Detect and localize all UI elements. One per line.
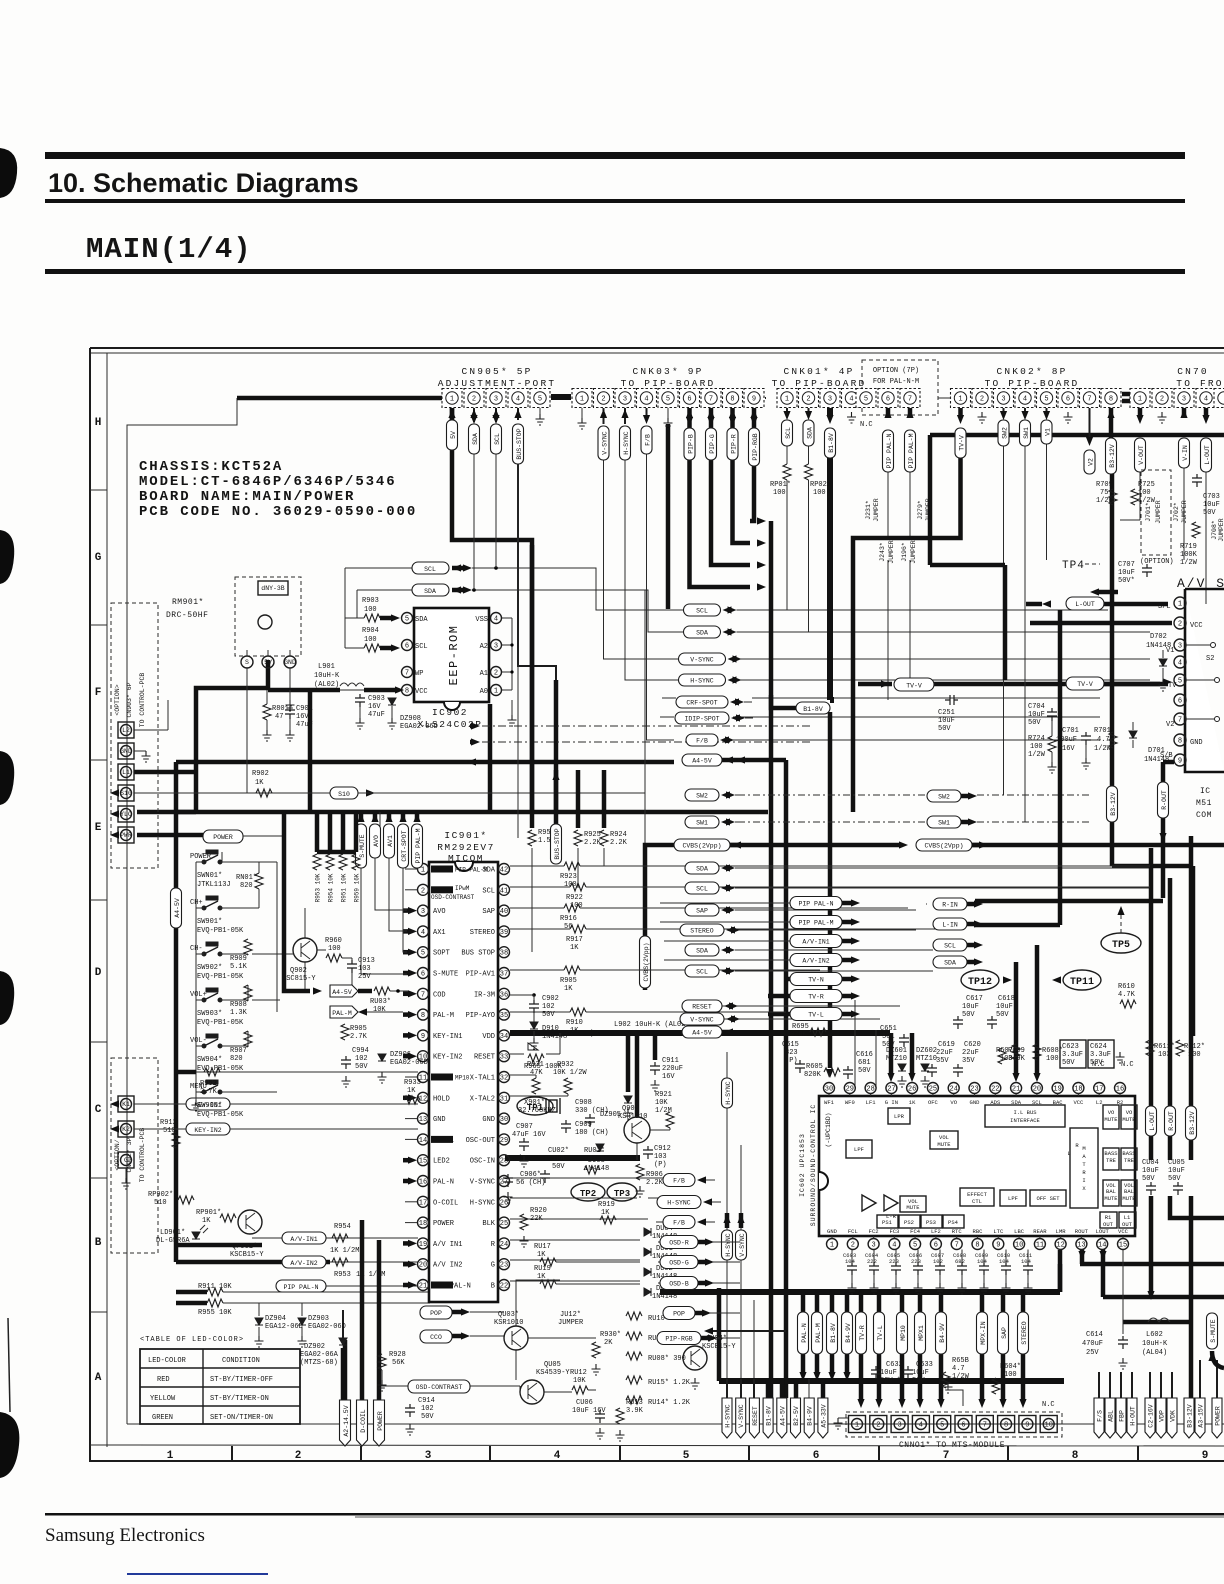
- svg-text:dNY-3B: dNY-3B: [261, 585, 285, 592]
- net tag SDA: [933, 956, 967, 968]
- svg-text:L1: L1: [1124, 1214, 1131, 1221]
- svg-text:R2: R2: [1117, 1099, 1124, 1106]
- svg-text:FOR PAL-N-M: FOR PAL-N-M: [873, 378, 919, 386]
- svg-text:38: 38: [500, 950, 508, 958]
- net tag TV-V: [955, 428, 966, 458]
- svg-text:37: 37: [500, 971, 508, 979]
- net tag L-IN: [933, 918, 967, 930]
- svg-text:EFFECT: EFFECT: [967, 1191, 988, 1198]
- transistor QU03: [504, 1326, 528, 1350]
- svg-text:17: 17: [1095, 1086, 1103, 1094]
- net tag PIP-RGB: [657, 1332, 701, 1345]
- svg-text:1/2W: 1/2W: [1094, 745, 1112, 753]
- wire VCC row pin2: [1030, 621, 1172, 626]
- svg-text:GREEN: GREEN: [152, 1414, 173, 1422]
- svg-text:BAL: BAL: [1106, 1188, 1116, 1195]
- svg-text:GND: GND: [970, 1099, 981, 1106]
- svg-text:SAP: SAP: [482, 908, 495, 916]
- svg-text:2: 2: [1160, 396, 1164, 404]
- option connector box: [862, 360, 938, 415]
- svg-text:10K: 10K: [573, 1377, 586, 1385]
- svg-text:RED: RED: [157, 1376, 170, 1384]
- svg-text:VSS: VSS: [475, 616, 488, 624]
- switch bank labels: [190, 853, 244, 1119]
- svg-text:JU12*: JU12*: [560, 1311, 581, 1319]
- svg-text:19: 19: [419, 1241, 427, 1249]
- svg-text:RP901*: RP901*: [196, 1209, 221, 1217]
- svg-text:5: 5: [1178, 678, 1182, 686]
- svg-text:C911: C911: [662, 1057, 679, 1065]
- net tag CRF-SPOT: [676, 696, 728, 708]
- switch SW901: [202, 896, 222, 910]
- svg-text:RU17: RU17: [534, 1243, 551, 1251]
- binder hole 2: [0, 530, 14, 584]
- svg-text:2: 2: [295, 1450, 302, 1462]
- svg-text:EGA02-06D: EGA02-06D: [390, 1059, 428, 1067]
- svg-text:7: 7: [1087, 396, 1091, 404]
- svg-text:10uF: 10uF: [962, 1003, 979, 1011]
- net tag A/V-IN1: [790, 935, 842, 948]
- wire bottom-left banners: [345, 1220, 379, 1400]
- resistor R925: [576, 770, 581, 828]
- svg-text:C615: C615: [782, 1041, 799, 1049]
- diode D903: [596, 1144, 604, 1151]
- svg-text:681: 681: [858, 1059, 871, 1067]
- svg-text:2.7K: 2.7K: [200, 1088, 218, 1096]
- svg-text:C994: C994: [352, 1047, 369, 1055]
- svg-text:CVBS(2Vpp): CVBS(2Vpp): [682, 843, 721, 850]
- svg-text:POWER: POWER: [213, 834, 233, 841]
- net tag SDA: [469, 424, 480, 454]
- binder hole 5: [0, 1412, 19, 1478]
- test point TP3: [607, 1183, 637, 1201]
- svg-text:100: 100: [564, 881, 577, 889]
- svg-text:A1: A1: [480, 670, 488, 678]
- svg-text:7: 7: [955, 1242, 959, 1250]
- switch SWN01: [202, 850, 222, 864]
- svg-text:TV-V: TV-V: [906, 683, 922, 690]
- svg-text:CRT-SPOT: CRT-SPOT: [401, 830, 408, 861]
- net tag SCL: [685, 882, 719, 894]
- svg-text:50V: 50V: [355, 1063, 368, 1071]
- svg-text:V2: V2: [1087, 458, 1094, 466]
- svg-text:3: 3: [494, 643, 498, 651]
- net tag R-IN: [933, 898, 967, 910]
- svg-text:MTZ10: MTZ10: [886, 1055, 907, 1063]
- svg-text:REAR: REAR: [1033, 1228, 1047, 1235]
- svg-text:KSCB15-Y: KSCB15-Y: [230, 1251, 264, 1259]
- svg-text:100uF: 100uF: [1056, 736, 1077, 744]
- svg-text:A4-5V: A4-5V: [174, 898, 181, 918]
- svg-text:O-COIL: O-COIL: [433, 1199, 458, 1207]
- wire QU03 net: [470, 1280, 596, 1380]
- svg-text:10uF: 10uF: [880, 1369, 897, 1377]
- svg-text:V-SYNC: V-SYNC: [690, 1017, 714, 1024]
- svg-text:EGA12-06D: EGA12-06D: [265, 1323, 303, 1331]
- svg-text:50V *: 50V *: [880, 1377, 901, 1385]
- CN903 pins: [118, 722, 134, 843]
- svg-text:Q902: Q902: [290, 967, 307, 975]
- svg-text:4.7K: 4.7K: [1118, 991, 1136, 999]
- svg-text:CU05: CU05: [1168, 1159, 1185, 1167]
- svg-text:TV-R: TV-R: [808, 994, 824, 1001]
- svg-text:SCL: SCL: [482, 887, 495, 895]
- svg-text:VDK: VDK: [1170, 1410, 1177, 1422]
- svg-text:R724: R724: [1028, 735, 1045, 743]
- diode/resistor R965: [510, 1053, 524, 1055]
- svg-text:682: 682: [955, 1258, 965, 1265]
- svg-text:PIP-AYO: PIP-AYO: [466, 1012, 495, 1020]
- svg-text:AV1: AV1: [387, 835, 394, 847]
- svg-text:S10: S10: [338, 791, 350, 798]
- svg-text:F/B: F/B: [696, 738, 708, 745]
- svg-text:PS3: PS3: [926, 1219, 936, 1226]
- svg-text:41: 41: [500, 887, 508, 895]
- svg-text:B1-8V: B1-8V: [828, 433, 835, 453]
- svg-text:820: 820: [240, 882, 253, 890]
- svg-text:MUTE: MUTE: [1122, 1116, 1136, 1123]
- header under rule: [45, 199, 1185, 203]
- svg-text:7: 7: [1178, 717, 1182, 725]
- wire TV rows: [768, 979, 790, 1014]
- svg-text:1K: 1K: [570, 944, 579, 952]
- svg-text:IPwM: IPwM: [455, 885, 470, 892]
- svg-text:39: 39: [500, 929, 508, 937]
- svg-text:PIP-AV1: PIP-AV1: [466, 971, 495, 979]
- binder hole 1: [0, 148, 17, 198]
- svg-text:3.3uF: 3.3uF: [1090, 1051, 1111, 1059]
- svg-text:H-SYNC: H-SYNC: [725, 1404, 732, 1428]
- svg-text:L-OUT: L-OUT: [1149, 1111, 1156, 1131]
- net tag S10: [330, 787, 358, 799]
- svg-text:EGA02-06D: EGA02-06D: [400, 723, 438, 731]
- svg-text:2: 2: [980, 396, 984, 404]
- CN905 pin stubs: [448, 408, 544, 425]
- svg-text:10uF: 10uF: [996, 1003, 1013, 1011]
- svg-text:OFC: OFC: [928, 1099, 939, 1106]
- svg-text:J231*: J231*: [865, 500, 872, 520]
- svg-text:R605: R605: [806, 1063, 823, 1071]
- svg-text:SW2: SW2: [1001, 427, 1008, 439]
- svg-text:SW901*: SW901*: [197, 918, 222, 926]
- svg-text:S-MUTE: S-MUTE: [359, 834, 366, 858]
- svg-text:VCC: VCC: [1073, 1099, 1084, 1106]
- svg-text:C633: C633: [916, 1361, 933, 1369]
- svg-text:C624: C624: [1090, 1043, 1107, 1051]
- svg-text:RESET: RESET: [692, 1004, 712, 1011]
- svg-text:QU03*: QU03*: [498, 1311, 519, 1319]
- A/V SW pins: [1174, 597, 1186, 766]
- svg-text:SDA: SDA: [696, 866, 708, 873]
- connector CN905 label: [438, 366, 557, 389]
- svg-text:50V: 50V: [882, 1041, 895, 1049]
- svg-text:2.2K: 2.2K: [646, 1179, 664, 1187]
- svg-text:100: 100: [364, 636, 377, 644]
- svg-text:R933: R933: [404, 1079, 421, 1087]
- diode DZ904: [255, 1318, 263, 1325]
- net tag SW2: [927, 790, 961, 802]
- svg-text:M51: M51: [1196, 799, 1212, 808]
- connector CN70x label: [1176, 366, 1223, 389]
- svg-text:RM292EV7: RM292EV7: [437, 842, 495, 853]
- svg-text:TRE: TRE: [1124, 1157, 1135, 1164]
- svg-text:C909: C909: [575, 1121, 592, 1129]
- wire Q901 collector: [635, 1033, 640, 1117]
- resistor R924: [602, 770, 607, 828]
- net tag PIP-R: [727, 428, 738, 460]
- svg-text:J196*: J196*: [901, 542, 908, 562]
- svg-text:100: 100: [1046, 1055, 1059, 1063]
- net tag SDA: [685, 944, 719, 956]
- svg-text:(MTZS-68): (MTZS-68): [300, 1359, 338, 1367]
- connector CNK03 label: [621, 366, 716, 389]
- svg-text:C912: C912: [654, 1145, 671, 1153]
- svg-text:D: D: [95, 967, 102, 979]
- svg-text:180 (CH): 180 (CH): [575, 1129, 609, 1137]
- svg-text:28: 28: [866, 1086, 874, 1094]
- svg-text:I.L BUS: I.L BUS: [1013, 1109, 1037, 1116]
- svg-text:510: 510: [154, 1199, 167, 1207]
- svg-text:BUS STOP: BUS STOP: [461, 950, 495, 958]
- VCC thick wire: [268, 688, 398, 693]
- svg-text:G IN: G IN: [885, 1099, 898, 1106]
- svg-text:2: 2: [494, 670, 498, 678]
- svg-text:A2-14.5V: A2-14.5V: [343, 1405, 350, 1436]
- svg-text:SW1: SW1: [938, 820, 950, 827]
- svg-text:OFF SET: OFF SET: [1036, 1195, 1060, 1202]
- svg-text:R955 10K: R955 10K: [198, 1309, 232, 1317]
- svg-text:KS4539-Y: KS4539-Y: [536, 1369, 570, 1377]
- wire CRF-SPOT row: [660, 698, 1100, 740]
- svg-text:SW1: SW1: [1023, 427, 1030, 439]
- svg-text:EVQ-PB1-05K: EVQ-PB1-05K: [197, 1019, 244, 1027]
- svg-text:QU05: QU05: [544, 1361, 561, 1369]
- svg-text:TO CONTROL-PCB: TO CONTROL-PCB: [139, 1128, 146, 1183]
- svg-text:ABL: ABL: [1108, 1410, 1115, 1422]
- svg-text:WP: WP: [415, 670, 423, 678]
- svg-text:ST-BY/TIMER-ON: ST-BY/TIMER-ON: [210, 1395, 269, 1403]
- net tag SCL: [491, 424, 502, 454]
- svg-text:STEREO: STEREO: [690, 928, 714, 935]
- net tag SDA: [803, 420, 814, 446]
- svg-text:LED-COLOR: LED-COLOR: [148, 1357, 187, 1365]
- svg-text:R924: R924: [610, 831, 627, 839]
- svg-text:1K 1/2M: 1K 1/2M: [330, 1247, 359, 1255]
- svg-text:104: 104: [552, 1155, 565, 1163]
- svg-text:18: 18: [1074, 1086, 1082, 1094]
- svg-text:C251: C251: [938, 709, 955, 717]
- net tag F/B: [641, 426, 652, 454]
- svg-text:A/V IN2: A/V IN2: [433, 1262, 462, 1270]
- net tag POWER: [203, 830, 243, 843]
- svg-text:EVQ-PB1-05K: EVQ-PB1-05K: [197, 973, 244, 981]
- svg-text:20: 20: [419, 1262, 427, 1270]
- resistor R905: [510, 969, 564, 971]
- subtitle under rule: [45, 269, 1185, 274]
- svg-text:3: 3: [494, 396, 498, 404]
- column number row: [167, 1450, 1209, 1462]
- svg-text:L-OUT: L-OUT: [1204, 445, 1211, 465]
- net tag TV-V mid: [894, 678, 934, 691]
- svg-text:D910: D910: [542, 1025, 559, 1033]
- wire TV-V row pin5: [1066, 677, 1104, 690]
- capacitor C912: [643, 1146, 653, 1159]
- svg-text:8: 8: [1178, 738, 1182, 746]
- border segment: [938, 397, 951, 399]
- OSD diode stack DU04/DU01/DU02/DU03: [644, 1228, 651, 1236]
- svg-text:SAP: SAP: [696, 908, 708, 915]
- svg-text:H-SYNC: H-SYNC: [470, 1199, 495, 1207]
- svg-text:JUMPER: JUMPER: [888, 540, 895, 564]
- svg-text:CNK02* 8P: CNK02* 8P: [996, 366, 1067, 377]
- svg-text:PAL-N: PAL-N: [433, 1179, 454, 1187]
- svg-text:22K: 22K: [530, 1215, 543, 1223]
- wire F/B pills left: [582, 1178, 663, 1283]
- svg-text:L1: L1: [122, 769, 130, 776]
- svg-text:BAL: BAL: [1124, 1188, 1134, 1195]
- resistor R719: [1192, 522, 1200, 538]
- svg-text:R912: R912: [160, 1119, 177, 1127]
- svg-text:10uH-K: 10uH-K: [314, 672, 340, 680]
- svg-text:3: 3: [425, 1450, 432, 1462]
- svg-text:L-R: L-R: [886, 1213, 897, 1220]
- svg-text:22uF: 22uF: [936, 1049, 953, 1057]
- svg-text:6: 6: [405, 643, 409, 651]
- svg-text:SWN01*: SWN01*: [197, 872, 222, 880]
- svg-text:GND: GND: [1190, 739, 1203, 747]
- svg-text:223: 223: [889, 1258, 899, 1265]
- net tags above CNN01: [798, 1312, 1029, 1354]
- svg-text:3: 3: [1178, 643, 1182, 651]
- svg-text:4: 4: [1023, 396, 1027, 404]
- CNN01 pin6 gnd: [948, 1382, 963, 1406]
- svg-text:10K: 10K: [373, 1006, 386, 1014]
- svg-text:R611*: R611*: [1154, 1043, 1175, 1051]
- net tag CVBS(2Vpp): [916, 839, 972, 851]
- svg-text:103: 103: [358, 965, 371, 973]
- svg-text:4: 4: [554, 1450, 561, 1462]
- net tag STEREO: [680, 924, 724, 936]
- net tag PIP PAL-N: [883, 430, 894, 472]
- svg-text:1.3K: 1.3K: [230, 1009, 248, 1017]
- svg-text:9: 9: [1178, 758, 1182, 766]
- net tag F/B: [686, 734, 718, 746]
- svg-text:VDP: VDP: [1159, 1410, 1166, 1422]
- svg-text:TP2: TP2: [580, 1189, 596, 1199]
- svg-text:103: 103: [654, 1153, 667, 1161]
- svg-text:1K 1/2M: 1K 1/2M: [356, 1271, 385, 1279]
- svg-text:100: 100: [773, 489, 786, 497]
- svg-text:820: 820: [230, 1055, 243, 1063]
- svg-text:40: 40: [500, 908, 508, 916]
- svg-text:L2: L2: [122, 727, 130, 734]
- svg-text:50V: 50V: [1062, 1059, 1075, 1067]
- svg-text:R-IN: R-IN: [942, 902, 958, 909]
- svg-text:PCB CODE NO. 36029-0590-000: PCB CODE NO. 36029-0590-000: [139, 504, 417, 520]
- svg-text:16V: 16V: [1062, 745, 1075, 753]
- svg-text:FCL: FCL: [848, 1228, 858, 1235]
- svg-text:TP3: TP3: [614, 1189, 630, 1199]
- svg-text:B2-5V: B2-5V: [793, 1406, 800, 1426]
- svg-text:R905: R905: [350, 1025, 367, 1033]
- svg-text:19: 19: [1053, 1086, 1061, 1094]
- svg-text:CONDITION: CONDITION: [222, 1357, 260, 1365]
- svg-text:WF1: WF1: [824, 1099, 835, 1106]
- wire SDA drop: [473, 454, 475, 590]
- net tag A4-5V: [330, 985, 358, 997]
- svg-text:SCL: SCL: [415, 643, 428, 651]
- svg-text:35V: 35V: [962, 1057, 975, 1065]
- svg-text:R701: R701: [1094, 727, 1111, 735]
- svg-text:PAL-N: PAL-N: [801, 1323, 808, 1343]
- capacitor C606: [909, 1250, 923, 1295]
- svg-text:VO: VO: [950, 1099, 957, 1106]
- svg-text:DL-G5R6A: DL-G5R6A: [156, 1237, 190, 1245]
- svg-text:A/V-IN2: A/V-IN2: [802, 958, 829, 965]
- svg-text:DZ904: DZ904: [265, 1315, 286, 1323]
- svg-text:V-OUT: V-OUT: [1138, 445, 1145, 465]
- svg-text:L901: L901: [318, 663, 335, 671]
- svg-text:SW2: SW2: [696, 793, 708, 800]
- svg-text:5: 5: [683, 1450, 690, 1462]
- svg-text:TRE: TRE: [1106, 1157, 1117, 1164]
- svg-text:9: 9: [1025, 1422, 1029, 1430]
- net tag BUS-STOP: [554, 770, 559, 824]
- svg-text:1N4148: 1N4148: [652, 1293, 677, 1301]
- svg-text:6: 6: [813, 1450, 820, 1462]
- svg-text:TP5: TP5: [1112, 940, 1130, 951]
- svg-text:LTC: LTC: [993, 1228, 1004, 1235]
- svg-text:R908: R908: [230, 1001, 247, 1009]
- connector CNN01: [846, 1412, 1062, 1437]
- svg-text:CN905* 5P: CN905* 5P: [461, 366, 532, 377]
- test point TP5: [1101, 933, 1141, 953]
- svg-text:102: 102: [421, 1405, 434, 1413]
- svg-text:B: B: [95, 1237, 102, 1249]
- svg-text:102: 102: [933, 1258, 943, 1265]
- wire OSD rows: [510, 1178, 648, 1284]
- svg-text:1: 1: [494, 688, 498, 696]
- svg-text:31: 31: [500, 1095, 508, 1103]
- capacitor C604: [865, 1250, 879, 1295]
- frame top double rule: [90, 347, 1224, 349]
- svg-text:13: 13: [1077, 1242, 1085, 1250]
- svg-text:RU12: RU12: [570, 1369, 587, 1377]
- svg-text:6: 6: [886, 396, 890, 404]
- svg-text:A5-33V: A5-33V: [820, 1404, 827, 1428]
- svg-text:21: 21: [1012, 1086, 1020, 1094]
- svg-text:1: 1: [830, 1242, 834, 1250]
- svg-text:OSD-B: OSD-B: [669, 1281, 689, 1288]
- svg-text:LBC: LBC: [1014, 1228, 1025, 1235]
- IC M51 label: [1196, 787, 1212, 820]
- frame bottom rules: [90, 1445, 1224, 1446]
- svg-text:LMR: LMR: [1056, 1228, 1067, 1235]
- resistor R709: [1109, 489, 1117, 505]
- svg-text:E: E: [95, 822, 102, 834]
- svg-text:CU04: CU04: [1142, 1159, 1159, 1167]
- svg-text:100: 100: [328, 945, 341, 953]
- svg-text:2K: 2K: [604, 1339, 613, 1347]
- net tag RESET: [682, 1000, 722, 1012]
- option pins 5 6 7: [856, 389, 920, 408]
- wire OSD-CONTRAST: [380, 1386, 596, 1392]
- svg-text:CVBS(2Vpp): CVBS(2Vpp): [924, 843, 963, 850]
- net tag PIP-G: [706, 428, 717, 460]
- svg-text:4: 4: [421, 929, 425, 937]
- svg-text:BUS-STOP: BUS-STOP: [554, 828, 561, 859]
- svg-text:C903: C903: [368, 695, 385, 703]
